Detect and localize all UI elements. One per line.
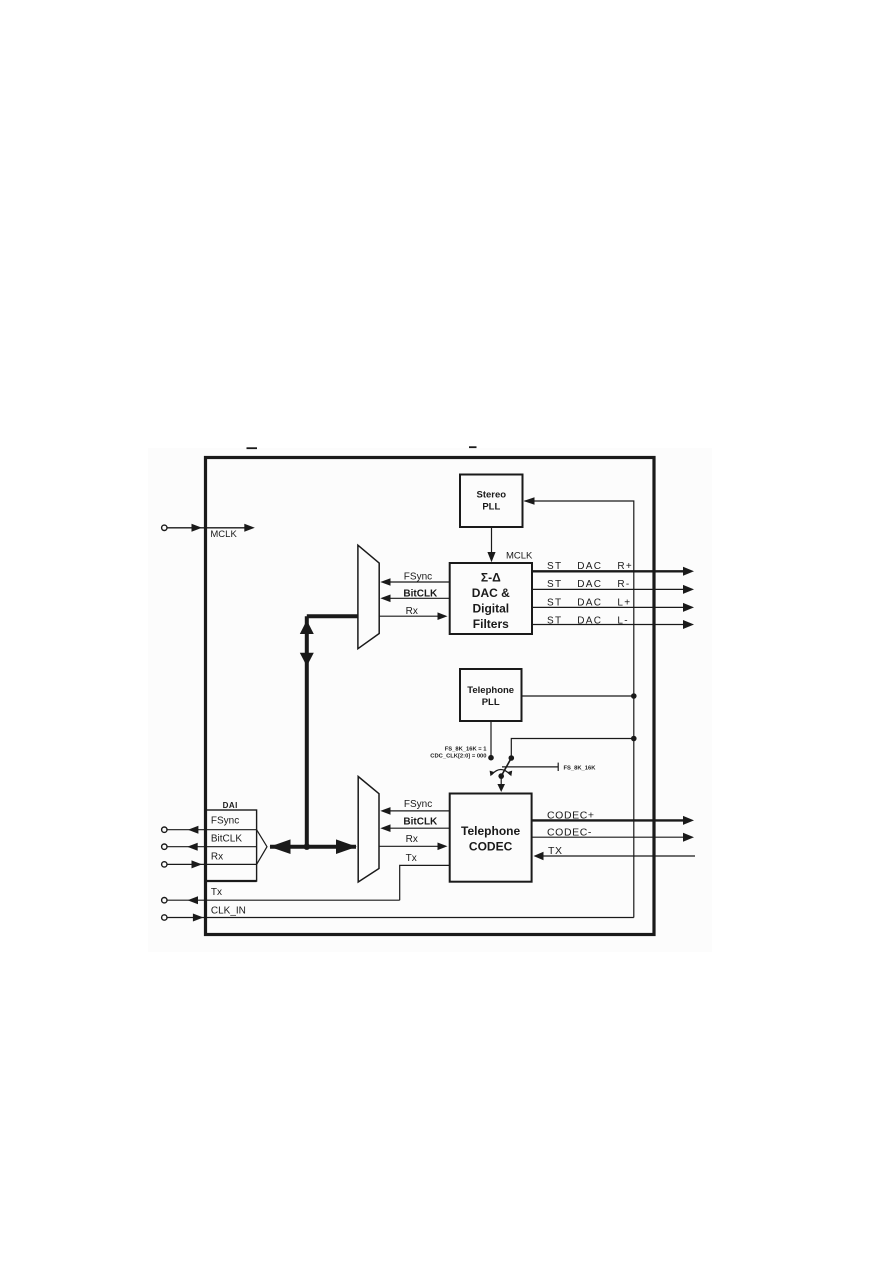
- svg-text:Tx: Tx: [211, 887, 222, 898]
- arrowhead bus left: [270, 839, 291, 854]
- svg-text:DAI: DAI: [223, 801, 238, 810]
- wire ST DAC L- output: [532, 615, 694, 629]
- mux M1 stereo interface mux: [358, 545, 379, 649]
- svg-text:DAC &: DAC &: [472, 586, 510, 600]
- svg-text:Rx: Rx: [406, 606, 418, 617]
- wire MCLK from Stereo PLL to DAC: [487, 527, 533, 562]
- wire FSync codec to mux M2: [380, 799, 449, 815]
- svg-text:FS_8K_16K = 1: FS_8K_16K = 1: [445, 747, 488, 753]
- wire switch pivot to codec: [500, 776, 502, 784]
- control lead FS_8K_16K: [502, 763, 596, 772]
- block U3 Telephone PLL: [460, 669, 522, 721]
- svg-text:ST DAC L+: ST DAC L+: [547, 597, 631, 608]
- wire Rx mux M2 to codec: [379, 834, 448, 850]
- switch lever: [501, 758, 511, 776]
- svg-text:Tx: Tx: [406, 853, 417, 864]
- svg-text:Rx: Rx: [211, 852, 223, 863]
- svg-text:MCLK: MCLK: [210, 529, 237, 540]
- block U4 Telephone CODEC: [450, 794, 532, 882]
- svg-text:Filters: Filters: [473, 617, 509, 631]
- wire Rx mux M1 to DAC: [379, 606, 447, 620]
- scan background tint: [148, 448, 712, 952]
- wire TX input from right edge: [534, 845, 696, 860]
- node: telephone PLL output junction: [631, 693, 637, 699]
- wire: thick serial bus horizontal bottom: [270, 845, 356, 849]
- svg-text:FSync: FSync: [404, 571, 432, 582]
- node: bus junction: [304, 844, 310, 850]
- mux M2 telephone interface mux: [358, 777, 379, 883]
- arrowhead bus up: [300, 620, 314, 634]
- arrowhead bus right: [336, 839, 357, 854]
- stray dash mark left: [247, 447, 258, 449]
- wire Tx codec down to Tx pin line: [400, 853, 450, 900]
- block DAI digital audio interface: [206, 801, 257, 881]
- wire Telephone PLL output to junction: [522, 695, 634, 697]
- svg-text:Telephone: Telephone: [461, 824, 520, 838]
- wire: thick serial bus horizontal top: [307, 614, 358, 618]
- svg-text:FS_8K_16K: FS_8K_16K: [564, 766, 597, 772]
- svg-text:CDC_CLK[2:0] = 000: CDC_CLK[2:0] = 000: [430, 754, 486, 760]
- wire ST DAC R+ output: [532, 561, 694, 576]
- node: switch pivot: [498, 773, 504, 779]
- svg-text:Digital: Digital: [472, 602, 509, 616]
- wire: PLL feedback from CLK_IN vertical to Stereo PLL: [524, 497, 634, 917]
- svg-text:FSync: FSync: [404, 799, 432, 810]
- wire: thick serial bus vertical: [305, 616, 309, 847]
- svg-text:BitCLK: BitCLK: [211, 834, 242, 845]
- wire switch right feed from junction: [511, 739, 634, 759]
- pin FSync: [162, 826, 257, 834]
- block U2 Sigma-Delta DAC & Digital Filters: [450, 563, 532, 634]
- pin MCLK: [162, 524, 255, 540]
- svg-text:ST DAC L-: ST DAC L-: [547, 615, 629, 626]
- node: switch left contact: [488, 755, 494, 761]
- svg-text:CODEC: CODEC: [469, 840, 513, 854]
- wire ST DAC R- output: [532, 579, 694, 594]
- svg-text:BitCLK: BitCLK: [403, 817, 438, 828]
- arrowhead bus down: [300, 653, 314, 667]
- wire Telephone PLL down to switch: [490, 721, 492, 758]
- svg-text:Stereo: Stereo: [477, 490, 507, 501]
- svg-text:MCLK: MCLK: [506, 551, 533, 562]
- DAI output triangle: [257, 830, 267, 865]
- arrowhead arc right: [507, 771, 512, 777]
- stray dash mark right: [469, 446, 477, 448]
- svg-text:Σ-Δ: Σ-Δ: [481, 571, 501, 585]
- svg-text:CODEC+: CODEC+: [547, 810, 595, 822]
- pin Rx: [162, 860, 257, 868]
- svg-text:TX: TX: [548, 845, 563, 857]
- wire CODEC+ output: [532, 810, 694, 825]
- svg-text:FSync: FSync: [211, 815, 239, 826]
- node: switch right contact: [509, 755, 515, 761]
- svg-text:CODEC-: CODEC-: [547, 827, 592, 839]
- node: switch feed junction: [631, 736, 637, 742]
- pin Tx: [162, 887, 400, 904]
- svg-text:BitCLK: BitCLK: [403, 589, 438, 600]
- block U1 Stereo PLL: [460, 475, 523, 528]
- svg-text:Rx: Rx: [406, 834, 418, 845]
- svg-text:PLL: PLL: [482, 502, 500, 513]
- switch swing arc: [492, 770, 510, 775]
- wire CODEC- output: [532, 827, 694, 842]
- arrowhead arc left: [490, 771, 495, 777]
- wire FSync DAC to mux M1: [380, 571, 449, 586]
- svg-text:PLL: PLL: [482, 697, 500, 708]
- pin CLK_IN: [162, 905, 634, 921]
- svg-text:Telephone: Telephone: [467, 685, 514, 696]
- svg-text:CLK_IN: CLK_IN: [211, 905, 246, 916]
- pin BitCLK: [162, 843, 257, 851]
- arrowhead into codec: [497, 784, 505, 792]
- svg-text:ST DAC R-: ST DAC R-: [547, 579, 631, 590]
- svg-text:ST DAC R+: ST DAC R+: [547, 561, 633, 572]
- chip outer boundary box: [206, 458, 655, 935]
- wire BitCLK DAC to mux M1: [380, 589, 449, 602]
- wire BitCLK codec to mux M2: [380, 817, 449, 833]
- wire ST DAC L+ output: [532, 597, 694, 612]
